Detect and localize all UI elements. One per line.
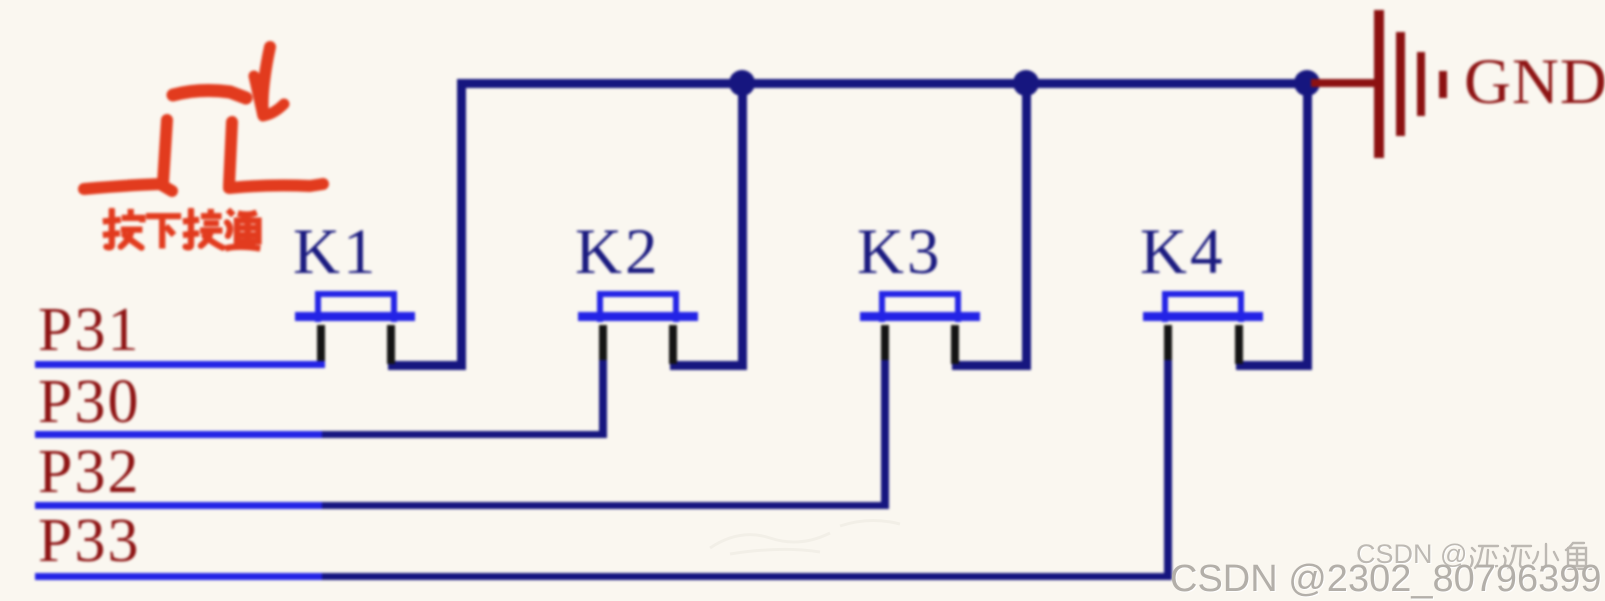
watermark CSDN large	[1170, 558, 1602, 601]
watermark small chinese strokes	[1470, 540, 1605, 570]
sketch arrow head	[254, 76, 284, 116]
ground symbol bar 3	[1417, 52, 1425, 116]
wire K2 right riser	[738, 79, 747, 370]
net label P31	[38, 299, 140, 361]
switch K4 actuator bar	[1143, 312, 1263, 321]
wire P30 navy	[322, 431, 607, 438]
switch K2 actuator bar	[578, 312, 698, 321]
wire K2 left drop	[599, 360, 607, 438]
char 下	[146, 216, 181, 248]
wire K3 right riser	[1022, 79, 1031, 370]
ghost faint marks	[700, 508, 960, 558]
net label P30	[38, 371, 140, 433]
wire K4 right horizontal	[1236, 361, 1312, 370]
label K1	[293, 220, 378, 285]
switch K4 pin left	[1164, 325, 1172, 364]
annotation text 按下接通 (hand strokes)	[101, 208, 263, 253]
sketch arrow shaft	[263, 47, 270, 114]
wire P33 navy	[322, 573, 1170, 580]
switch K2 cap	[597, 291, 679, 322]
wire red to GND symbol	[1311, 79, 1374, 87]
ground symbol bar 4	[1439, 71, 1447, 98]
switch K1 pin right	[387, 325, 395, 364]
switch K1 actuator bar	[295, 312, 415, 321]
switch K4 cap	[1162, 291, 1244, 322]
wire K4 left drop	[1164, 360, 1172, 580]
switch K3 pin left	[881, 325, 889, 364]
switch K1 cap	[315, 291, 397, 322]
char 按	[103, 209, 143, 248]
watermark CSDN small	[1356, 539, 1467, 570]
annotation hand-drawn sketch	[0, 0, 360, 280]
label K4	[1140, 220, 1225, 285]
wire P32 navy	[322, 502, 888, 509]
switch K1 pin left	[317, 325, 325, 364]
char 通	[225, 210, 260, 249]
wire top bus GND net	[457, 79, 1311, 88]
switch K4 pin right	[1235, 325, 1243, 364]
wire K3 right horizontal	[952, 361, 1031, 370]
net label P32	[38, 441, 140, 503]
switch K2 pin right	[669, 325, 677, 364]
wire K2 right horizontal	[670, 361, 747, 370]
wire K1 right horizontal	[388, 361, 466, 370]
net label P33	[38, 510, 140, 572]
wire K1 right riser	[457, 79, 466, 369]
junction node at K2 riser	[729, 70, 755, 96]
switch K3 pin right	[951, 325, 959, 364]
switch K3 actuator bar	[860, 312, 980, 321]
sketch right contact vertical	[229, 122, 232, 186]
junction node at K3 riser	[1013, 70, 1039, 96]
wire K4 right riser	[1303, 79, 1312, 370]
ground symbol bar 1	[1374, 10, 1384, 158]
wire P31 blue	[35, 361, 325, 368]
wire K3 left drop	[881, 360, 889, 509]
wire P30 blue	[35, 431, 322, 438]
wire P32 blue	[35, 502, 322, 509]
net label GND	[1464, 50, 1605, 115]
wire P33 blue	[35, 573, 322, 580]
sketch left base stroke	[84, 184, 172, 191]
label K3	[857, 220, 942, 285]
char 接	[183, 209, 223, 248]
sketch right base stroke	[229, 184, 323, 188]
junction node at K4 riser / GND	[1294, 70, 1320, 96]
label K2	[575, 220, 660, 285]
ground symbol bar 2	[1396, 32, 1405, 136]
switch K2 pin left	[599, 325, 607, 364]
sketch cap top stroke	[173, 91, 246, 98]
switch K3 cap	[879, 291, 961, 322]
sketch left contact vertical	[163, 120, 167, 183]
